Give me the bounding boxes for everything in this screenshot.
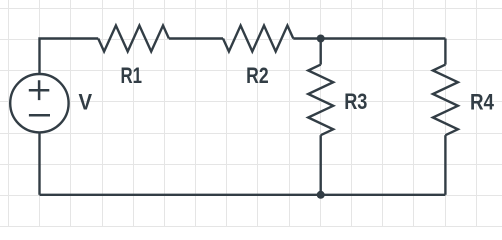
- wire: R2 to top junction: [293, 37, 320, 39]
- junction node (bottom): [317, 191, 325, 199]
- wire: top junction to top-right corner: [321, 37, 446, 39]
- resistor R2: [223, 26, 293, 52]
- wire: bottom wire left segment: [40, 194, 321, 196]
- junction node (top): [317, 35, 325, 43]
- minus sign of source: [29, 114, 50, 117]
- wire: R1 to R2: [169, 37, 223, 39]
- wire: source top to top-left corner to R1: [40, 39, 99, 75]
- svg-text:R3: R3: [344, 89, 367, 114]
- resistor R1: [98, 26, 169, 52]
- wire: bottom-left up to source bottom: [38, 132, 40, 195]
- wire: R3 down to bottom junction: [320, 135, 322, 195]
- resistor R3: [308, 65, 333, 136]
- plus sign of source: [29, 80, 50, 100]
- svg-text:R2: R2: [246, 63, 269, 88]
- wire: R4 down to bottom-right corner: [444, 135, 446, 195]
- wire: top junction down to R3: [320, 39, 322, 65]
- svg-text:R4: R4: [470, 90, 494, 115]
- wire: bottom wire right segment: [321, 194, 446, 196]
- svg-text:R1: R1: [120, 63, 142, 88]
- wire: top-right corner down to R4: [444, 39, 446, 65]
- svg-text:V: V: [79, 90, 93, 115]
- voltage source V (circle): [10, 74, 68, 132]
- resistor R4: [433, 65, 458, 136]
